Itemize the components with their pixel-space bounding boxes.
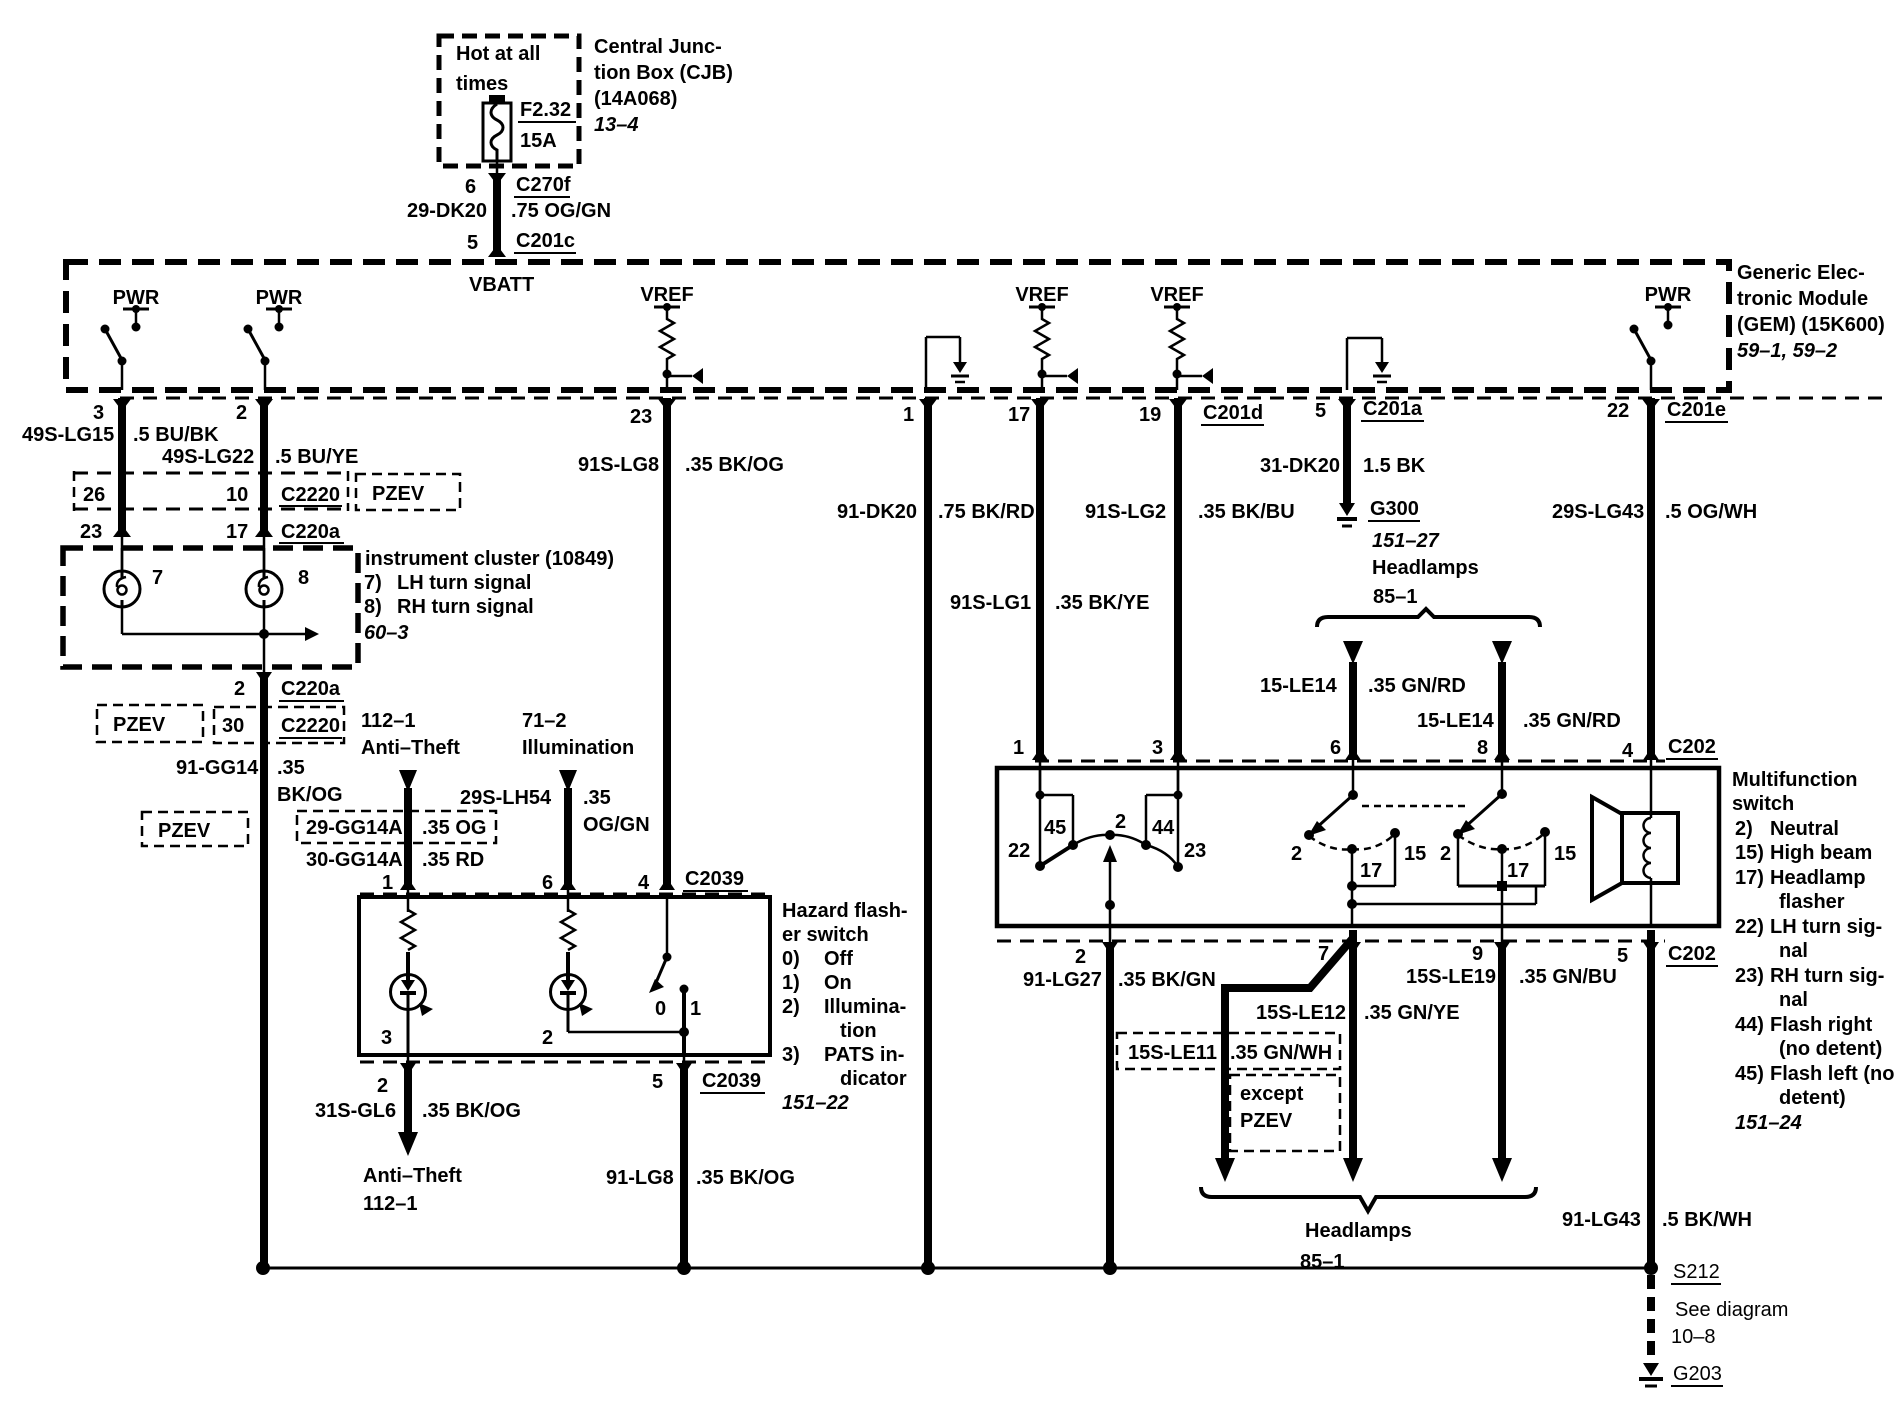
svg-text:dicator: dicator [840,1068,907,1090]
resistor hazard lamp 3 [401,910,415,950]
svg-text:LH turn sig-: LH turn sig- [1770,916,1882,938]
svg-text:15-LE14: 15-LE14 [1417,710,1495,732]
svg-text:(14A068): (14A068) [594,88,677,110]
svg-text:3: 3 [1152,737,1163,759]
svg-text:Flash left (no: Flash left (no [1770,1063,1894,1085]
svg-text:.35 BK/GN: .35 BK/GN [1118,969,1216,991]
svg-text:112–1: 112–1 [361,710,416,732]
svg-text:.35 OG: .35 OG [422,817,486,839]
svg-text:nal: nal [1779,989,1808,1011]
svg-text:C201a: C201a [1363,398,1423,420]
wire label 91-GG14 [176,757,343,806]
svg-text:tronic Module: tronic Module [1737,288,1868,310]
wire 91S-LG8 GEM pin 23 to hazard pin 4 [578,398,784,890]
svg-text:13–4: 13–4 [594,114,639,136]
wire 31S-GL6 hazard pin 2 to Anti-Theft [315,1055,521,1215]
wire 91-LG27 MFS pin 2 to splice [1023,926,1216,1268]
svg-text:112–1: 112–1 [363,1193,418,1215]
svg-text:4: 4 [1622,740,1634,762]
svg-text:22: 22 [1008,840,1030,862]
svg-text:8): 8) [364,596,382,618]
PZEV box mid [97,705,203,742]
wire ground bus [256,1261,1651,1275]
svg-text:91-DK20: 91-DK20 [837,501,917,523]
svg-text:45: 45 [1044,817,1066,839]
svg-text:flasher: flasher [1779,891,1845,913]
svg-text:60–3: 60–3 [364,622,409,644]
svg-text:5: 5 [1315,400,1326,422]
svg-text:91S-LG1: 91S-LG1 [950,592,1031,614]
svg-text:15: 15 [1404,843,1426,865]
svg-text:S212: S212 [1673,1261,1720,1283]
svg-text:1: 1 [690,998,701,1020]
svg-text:LH turn signal: LH turn signal [397,572,531,594]
svg-text:tion: tion [840,1020,877,1042]
wire 91-DK20 GEM pin 1 to splice [837,398,1035,1268]
svg-text:15S-LE12: 15S-LE12 [1256,1002,1346,1024]
connector C220a labels [80,521,344,543]
svg-text:10: 10 [226,484,248,506]
wire 29S-LG43 GEM pin 22 to MFS pin 4 [1552,398,1757,770]
node PWR 2 [256,287,303,332]
lamp 7 LH turn signal [104,548,163,607]
svg-text:71–2: 71–2 [522,710,567,732]
svg-text:Central Junc-: Central Junc- [594,36,722,58]
switch headlamp flasher B [1440,789,1576,926]
svg-text:30: 30 [222,715,244,737]
svg-text:15S-LE11: 15S-LE11 [1128,1042,1217,1064]
wire 29-GG14A to hazard pin 1 [399,770,417,912]
svg-text:.35 GN/RD: .35 GN/RD [1523,710,1621,732]
svg-text:PZEV: PZEV [158,820,211,842]
svg-text:5: 5 [467,232,478,254]
wire 91S-LG1 GEM pin 17 to MFS pin 1 [950,398,1149,795]
connector line C201 [120,397,1890,400]
svg-text:PZEV: PZEV [1240,1110,1293,1132]
svg-text:(no detent): (no detent) [1779,1038,1882,1060]
svg-text:91-LG43: 91-LG43 [1562,1209,1641,1231]
Generic Electronic Module GEM box [66,262,1885,390]
svg-text:G203: G203 [1673,1363,1722,1385]
svg-text:44: 44 [1152,817,1175,839]
wire 29-DK20 C270f from fuse to GEM [407,161,611,257]
svg-text:22: 22 [1607,400,1629,422]
node PWR 1 [113,287,160,332]
svg-text:29-GG14A: 29-GG14A [306,817,403,839]
svg-text:8: 8 [1477,737,1488,759]
svg-text:91S-LG2: 91S-LG2 [1085,501,1166,523]
svg-text:5: 5 [1617,945,1628,967]
GEM pin 1 output driver [926,337,969,390]
svg-text:15: 15 [1554,843,1576,865]
GEM pin labels [93,398,1728,428]
svg-text:31S-GL6: 31S-GL6 [315,1100,396,1122]
connector C202 bottom [997,941,1718,968]
svg-text:C202: C202 [1668,736,1716,758]
fuse F2.32 15A [483,95,576,161]
wire 15-LE14 right to MFS pin 8 [1417,641,1621,794]
wire 49S-LG15 pin 3 [22,398,219,572]
svg-text:.35: .35 [277,757,305,779]
svg-text:.35 BK/BU: .35 BK/BU [1198,501,1295,523]
svg-text:17): 17) [1735,867,1764,889]
svg-text:45): 45) [1735,1063,1764,1085]
lamp illumination [542,952,593,1049]
svg-text:17: 17 [226,521,248,543]
svg-text:.75 BK/RD: .75 BK/RD [938,501,1035,523]
lamp PATS indicator [381,952,433,1055]
svg-text:.75 OG/GN: .75 OG/GN [511,200,611,222]
svg-text:Generic Elec-: Generic Elec- [1737,262,1865,284]
svg-text:C202: C202 [1668,943,1716,965]
svg-text:.35 GN/BU: .35 GN/BU [1519,966,1617,988]
svg-text:10–8: 10–8 [1671,1326,1716,1348]
svg-text:2: 2 [1440,843,1451,865]
svg-text:.35 BK/YE: .35 BK/YE [1055,592,1149,614]
switch PWR 3 [1630,325,1656,391]
wire 91-LG8 hazard pin 5 to splice [606,1055,795,1268]
wire label 30-GG14A .35 RD [306,849,484,871]
svg-text:2: 2 [234,678,245,700]
lamp 8 RH turn signal [246,548,309,607]
resistor VREF 2 [1035,307,1078,390]
svg-text:Anti–Theft: Anti–Theft [363,1165,462,1187]
wire label box 29-GG14A .35 OG [297,811,496,843]
svg-text:PZEV: PZEV [113,714,166,736]
svg-text:30-GG14A: 30-GG14A [306,849,403,871]
svg-text:C220a: C220a [281,678,341,700]
resistor VREF 3 [1170,307,1213,390]
svg-text:Hot at all: Hot at all [456,43,540,65]
svg-text:.35 BK/OG: .35 BK/OG [696,1167,795,1189]
svg-text:Illumination: Illumination [522,737,634,759]
svg-text:29-DK20: 29-DK20 [407,200,487,222]
svg-text:15A: 15A [520,130,557,152]
svg-text:91-GG14: 91-GG14 [176,757,259,779]
svg-text:except: except [1240,1083,1304,1105]
connector C2039 top [360,868,770,894]
svg-text:5: 5 [652,1071,663,1093]
svg-text:C2039: C2039 [685,868,744,890]
svg-text:C201e: C201e [1667,399,1726,421]
svg-text:91S-LG8: 91S-LG8 [578,454,659,476]
connector C2220 band 2 [214,707,344,743]
svg-text:3: 3 [381,1027,392,1049]
svg-text:2: 2 [236,402,247,424]
svg-text:Anti–Theft: Anti–Theft [361,737,460,759]
svg-text:Neutral: Neutral [1770,818,1839,840]
svg-text:2: 2 [542,1027,553,1049]
svg-text:22): 22) [1735,916,1764,938]
svg-text:High beam: High beam [1770,842,1872,864]
svg-text:6: 6 [1330,737,1341,759]
svg-text:F2.32: F2.32 [520,99,571,121]
svg-text:49S-LG15: 49S-LG15 [22,424,114,446]
node VREF 3 [1150,284,1203,311]
hazard flasher switch box [359,897,908,1114]
svg-text:91-LG27: 91-LG27 [1023,969,1102,991]
resistor hazard lamp 2 [561,910,575,950]
connector C202 top [1013,736,1718,762]
svg-text:2): 2) [1735,818,1753,840]
svg-text:6: 6 [542,872,553,894]
svg-text:C2220: C2220 [281,715,340,737]
wire 91-LG43 MFS pin 5 to S212 [1562,930,1752,1268]
svg-text:C201c: C201c [516,230,575,252]
wire 31-DK20 GEM pin 5 to G300 [1260,398,1426,505]
wire 15S-LE19 MFS pin 9 to headlamps [1406,926,1617,1182]
svg-text:7: 7 [152,567,163,589]
svg-text:instrument cluster (10849): instrument cluster (10849) [365,548,614,570]
svg-text:Hazard flash-: Hazard flash- [782,900,908,922]
svg-text:OG/GN: OG/GN [583,814,650,836]
svg-text:VBATT: VBATT [469,274,534,296]
svg-text:85–1: 85–1 [1373,586,1418,608]
svg-text:Flash right: Flash right [1770,1014,1873,1036]
wire 15S-LE11 branch to headlamps [1117,938,1353,1182]
svg-text:19: 19 [1139,404,1161,426]
svg-text:1: 1 [1013,737,1024,759]
svg-text:BK/OG: BK/OG [277,784,343,806]
svg-text:.5 BK/WH: .5 BK/WH [1662,1209,1752,1231]
svg-text:Illumina-: Illumina- [824,996,906,1018]
horn multifunction [1592,768,1678,926]
svg-text:15): 15) [1735,842,1764,864]
Hot at all times box [439,36,579,166]
svg-text:On: On [824,972,852,994]
svg-text:2): 2) [782,996,800,1018]
node VREF 2 [1015,284,1068,311]
svg-text:2: 2 [377,1075,388,1097]
svg-text:2: 2 [1115,811,1126,833]
wire inside cluster with arrow [122,606,319,667]
svg-text:17: 17 [1360,860,1382,882]
svg-text:1: 1 [382,872,393,894]
svg-text:.35 BK/OG: .35 BK/OG [422,1100,521,1122]
svg-text:Multifunction: Multifunction [1732,769,1858,791]
node PWR 3 [1645,284,1692,330]
svg-text:VREF: VREF [1015,284,1068,306]
svg-text:PWR: PWR [1645,284,1692,306]
svg-text:C2220: C2220 [281,484,340,506]
wire 49S-LG22 pin 2 [162,398,358,572]
svg-text:3): 3) [782,1044,800,1066]
svg-text:RH turn signal: RH turn signal [397,596,534,618]
svg-text:.35 RD: .35 RD [422,849,484,871]
svg-text:See diagram: See diagram [1675,1299,1788,1321]
svg-text:Headlamps: Headlamps [1305,1220,1412,1242]
svg-text:tion Box (CJB): tion Box (CJB) [594,62,733,84]
svg-text:9: 9 [1472,943,1483,965]
svg-text:G300: G300 [1370,498,1419,520]
svg-text:151–27: 151–27 [1372,530,1440,552]
svg-text:detent): detent) [1779,1087,1846,1109]
PZEV box lower [142,812,248,846]
node Headlamps 85-1 top [1317,557,1540,627]
switch PWR 2 [244,325,270,391]
svg-text:29S-LH54: 29S-LH54 [460,787,552,809]
svg-text:Off: Off [824,948,853,970]
svg-text:.5 OG/WH: .5 OG/WH [1665,501,1757,523]
switch hazard 0-1 [568,897,701,1055]
svg-text:VREF: VREF [1150,284,1203,306]
node Anti-Theft 112-1 input [361,710,460,759]
svg-text:0): 0) [782,948,800,970]
svg-text:.35 GN/RD: .35 GN/RD [1368,675,1466,697]
node Headlamps 85-1 bottom [1201,1187,1536,1273]
ground G300 [1337,498,1440,552]
svg-text:7): 7) [364,572,382,594]
svg-text:.5 BU/BK: .5 BU/BK [133,424,219,446]
switch headlamp flasher A [1291,790,1536,926]
multifunction switch legend [1732,769,1894,1134]
svg-text:C270f: C270f [516,174,571,196]
node Illumination 71-2 input [522,710,634,759]
svg-text:23: 23 [80,521,102,543]
svg-text:91-LG8: 91-LG8 [606,1167,674,1189]
svg-text:(GEM) (15K600): (GEM) (15K600) [1737,314,1885,336]
svg-text:.35 GN/WH: .35 GN/WH [1230,1042,1332,1064]
splice S212 [1644,1261,1721,1284]
svg-text:23): 23) [1735,965,1764,987]
svg-text:59–1, 59–2: 59–1, 59–2 [1737,340,1837,362]
GEM pin 5 output driver [1347,338,1391,390]
connector C2220 band [74,471,348,511]
svg-text:RH turn sig-: RH turn sig- [1770,965,1884,987]
svg-text:C201d: C201d [1203,402,1263,424]
svg-text:1.5 BK: 1.5 BK [1363,455,1426,477]
svg-text:151–22: 151–22 [782,1092,849,1114]
svg-text:85–1: 85–1 [1300,1251,1345,1273]
svg-text:1): 1) [782,972,800,994]
svg-text:VREF: VREF [640,284,693,306]
svg-text:times: times [456,73,508,95]
svg-text:151–24: 151–24 [1735,1112,1802,1134]
svg-text:17: 17 [1507,860,1529,882]
svg-text:0: 0 [655,998,666,1020]
svg-text:23: 23 [1184,840,1206,862]
node VREF 1 [640,284,693,311]
ground G203 [1639,1363,1723,1386]
svg-text:.35 BK/OG: .35 BK/OG [685,454,784,476]
svg-text:15-LE14: 15-LE14 [1260,675,1338,697]
svg-text:Headlamp: Headlamp [1770,867,1866,889]
svg-text:.35 GN/YE: .35 GN/YE [1364,1002,1460,1024]
svg-text:23: 23 [630,406,652,428]
instrument cluster box [63,548,614,667]
svg-text:4: 4 [638,872,650,894]
svg-text:2: 2 [1075,946,1086,968]
svg-text:6: 6 [465,176,476,198]
svg-text:PATS in-: PATS in- [824,1044,904,1066]
svg-text:.5 BU/YE: .5 BU/YE [275,446,358,468]
wire S212 to G203 [1651,1275,1788,1364]
svg-text:8: 8 [298,567,309,589]
svg-text:2: 2 [1291,843,1302,865]
svg-text:44): 44) [1735,1014,1764,1036]
svg-text:29S-LG43: 29S-LG43 [1552,501,1644,523]
wire 15S-LE12 MFS pin 7 to headlamps [1256,930,1460,1182]
switch turn signal rotary [1008,768,1206,926]
svg-text:1: 1 [903,404,914,426]
svg-text:3: 3 [93,402,104,424]
svg-text:15S-LE19: 15S-LE19 [1406,966,1496,988]
svg-text:er switch: er switch [782,924,869,946]
Central Junction Box label [594,36,733,136]
svg-text:49S-LG22: 49S-LG22 [162,446,254,468]
wire 15-LE14 left to MFS pin 6 [1260,641,1466,795]
wire 29S-LH54 to hazard pin 6 [460,770,650,912]
connector C2039 bottom [360,1062,770,1093]
PZEV box top [356,474,460,510]
svg-text:nal: nal [1779,940,1808,962]
svg-text:switch: switch [1732,793,1794,815]
svg-text:.35: .35 [583,787,611,809]
svg-text:17: 17 [1008,404,1030,426]
svg-text:C220a: C220a [281,521,341,543]
svg-text:PZEV: PZEV [372,483,425,505]
svg-text:Headlamps: Headlamps [1372,557,1479,579]
wire 91S-LG2 GEM pin 19 to MFS pin 3 [1085,398,1295,795]
switch PWR 1 [101,325,127,391]
svg-text:26: 26 [83,484,105,506]
resistor VREF 1 [660,307,703,390]
multifunction switch box [997,768,1719,926]
svg-text:C2039: C2039 [702,1070,761,1092]
svg-text:31-DK20: 31-DK20 [1260,455,1340,477]
wire pin 2 C220a below cluster [234,667,344,1268]
